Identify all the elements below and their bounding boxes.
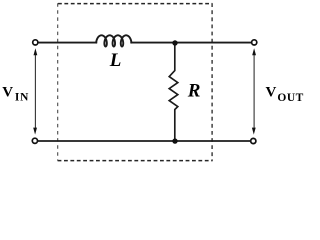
svg-text:OUT: OUT: [277, 92, 303, 104]
svg-text:L: L: [109, 50, 122, 71]
svg-text:V: V: [266, 85, 277, 101]
svg-text:V: V: [2, 85, 13, 101]
svg-text:R: R: [187, 80, 201, 101]
svg-text:IN: IN: [15, 91, 29, 103]
